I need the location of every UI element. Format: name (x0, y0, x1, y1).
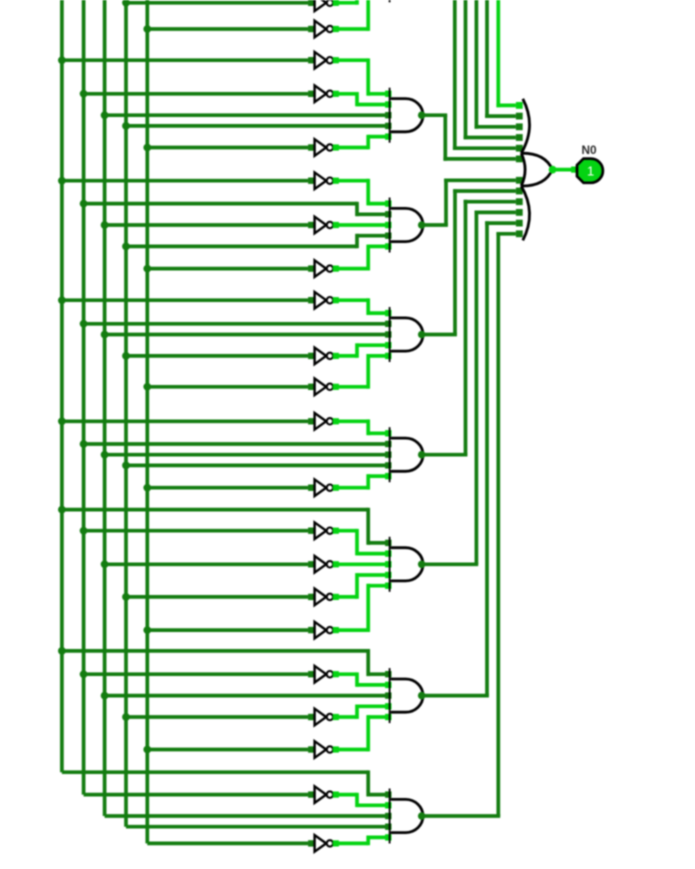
inverter G0d (308, 0, 339, 11)
bus A junction dots (58, 56, 66, 655)
node G6 in5 stub (385, 714, 391, 720)
wire (126, 595, 308, 599)
node G2 in2 stub (385, 211, 391, 217)
wire (84, 92, 309, 96)
inverter G4 in5 NOT (308, 479, 339, 496)
node G2 in1 stub (385, 200, 391, 206)
wire (336, 92, 386, 106)
node G2 in5 stub (385, 243, 391, 249)
wire (62, 649, 386, 676)
wire (105, 562, 309, 566)
inverter G6 in4 NOT (308, 709, 339, 726)
wire (105, 333, 386, 337)
node U1 out (418, 111, 426, 119)
wire (336, 705, 386, 719)
node G3 in2 stub (385, 321, 391, 327)
inverter G2 in3 NOT (308, 217, 339, 234)
wire (126, 715, 308, 719)
node G6 in3 stub (385, 692, 391, 698)
bus B vertical (82, 0, 86, 795)
wire (147, 842, 308, 846)
node G3 in5 stub (385, 353, 391, 359)
node G4 in3 stub (385, 452, 391, 458)
node G3 in4 stub (385, 342, 391, 348)
node G3 in1 stub (385, 310, 391, 316)
and-gate U1 (390, 88, 423, 143)
node G7 in5 stub (385, 834, 391, 840)
inverter G6 in2 NOT (308, 666, 339, 683)
node G4 in2 stub (385, 441, 391, 447)
inverter G7 in2 NOT (308, 786, 339, 803)
node G5 in5 stub (385, 583, 391, 589)
inverter G2 in5 NOT (308, 260, 339, 277)
and-gate U5 (390, 537, 423, 592)
bus C junction dots (101, 111, 109, 699)
node G5 in4 stub (385, 572, 391, 578)
node U5 out (418, 561, 426, 569)
wire (62, 58, 308, 62)
and-gate U4 (390, 427, 423, 482)
wire (126, 1, 308, 5)
wire (336, 135, 386, 150)
wire (84, 793, 309, 797)
bus D junction dots (122, 0, 130, 721)
node G6 in4 stub (385, 703, 391, 709)
node G7 in4 stub (385, 824, 391, 830)
node U8 out (549, 166, 557, 174)
inverter G7 in5 NOT (308, 835, 339, 852)
wire (126, 234, 386, 248)
wire (336, 223, 386, 227)
node G5 in3 stub (385, 561, 391, 567)
wire (84, 322, 386, 326)
wire (84, 442, 386, 446)
wire (336, 58, 386, 95)
wire (336, 0, 357, 5)
wire (336, 672, 386, 686)
inverter G1 in5 NOT (308, 139, 339, 156)
node G5 in2 stub (385, 550, 391, 556)
wire (147, 267, 308, 271)
or-gate U8 input stubs (516, 102, 523, 237)
node U4 out (418, 451, 426, 459)
node G6 in1 stub (385, 671, 391, 677)
bus D vertical (124, 0, 128, 827)
svg-text:1: 1 (587, 163, 594, 178)
and-gate U6 (390, 668, 423, 723)
bus B junction dots (80, 90, 88, 678)
inverter G1 in1 NOT (308, 52, 339, 69)
node G7 in3 stub (385, 813, 391, 819)
node U2 out (418, 221, 426, 229)
wire (126, 464, 386, 468)
and-gate G0 input line tip (389, 0, 391, 2)
node G1 in2 stub (385, 101, 391, 107)
wire (126, 354, 308, 358)
wire (147, 486, 308, 490)
wire (336, 562, 386, 566)
inverter G5 in5 NOT (308, 622, 339, 639)
wire (336, 179, 386, 206)
wire (105, 223, 309, 227)
wire (62, 179, 308, 183)
bus A vertical (60, 0, 64, 772)
wire (147, 385, 308, 389)
inverter G6 in5 NOT (308, 741, 339, 758)
node G7 in1 stub (385, 791, 391, 797)
wire from hidden gate 3 to OR (464, 0, 516, 139)
wire (336, 715, 386, 751)
and-gate U7 (390, 789, 423, 844)
node G1 in3 stub (385, 112, 391, 118)
wire U1 output to OR (423, 115, 516, 161)
wire (336, 343, 386, 358)
node G2 in4 stub (385, 233, 391, 239)
svg-text:N0: N0 (581, 143, 597, 157)
node U3 out (418, 331, 426, 339)
wire (62, 508, 386, 545)
wire (336, 573, 386, 599)
wire (336, 836, 386, 846)
wire U8 out to pin N0 (554, 168, 578, 172)
wire (126, 825, 386, 829)
wire from hidden gate 1 to OR (485, 0, 516, 118)
inverter G1 in2 NOT (308, 86, 339, 103)
wire (126, 124, 386, 128)
node G1 in4 stub (385, 123, 391, 129)
wire from hidden gate 4 to OR (453, 0, 516, 150)
wire (84, 529, 309, 533)
inverter G3 in5 NOT (308, 379, 339, 396)
wire from hidden gate 0 to OR (496, 0, 516, 107)
and-gate U2 (390, 198, 423, 253)
wire (105, 113, 386, 117)
bus C vertical (103, 0, 107, 816)
wire (336, 354, 386, 389)
wire (336, 474, 386, 489)
inverter G3 in1 NOT (308, 292, 339, 309)
wire (147, 748, 308, 752)
node G1 in5 stub (385, 133, 391, 139)
wire U3 output to OR (423, 189, 516, 334)
wire (336, 0, 368, 31)
bus E vertical (145, 0, 149, 843)
wire (147, 146, 308, 150)
wire (336, 793, 386, 807)
wire (105, 453, 386, 457)
wire (336, 419, 386, 435)
wire (84, 672, 309, 676)
node G7 in2 stub (385, 802, 391, 808)
node G4 in1 stub (385, 430, 391, 436)
node G4 in5 stub (385, 473, 391, 479)
inverter G5 in3 NOT (308, 556, 339, 573)
node G2 in3 stub (385, 222, 391, 228)
inverter G2 in1 NOT (308, 172, 339, 189)
wire (147, 27, 308, 31)
wire (62, 770, 386, 796)
wire U6 output to OR (423, 221, 516, 695)
wire (336, 529, 386, 556)
wire (62, 419, 308, 423)
node G1 in1 stub (385, 91, 391, 97)
inverter G5 in2 NOT (308, 522, 339, 539)
wire U4 output to OR (423, 200, 516, 455)
node pin port (571, 167, 577, 173)
inverter G0e (308, 21, 339, 38)
node G4 in4 stub (385, 462, 391, 468)
inverter G5 in4 NOT (308, 589, 339, 606)
bus E junction dots (143, 25, 151, 753)
wire (105, 694, 386, 698)
and-gate U3 (390, 307, 423, 362)
wire from hidden gate 2 to OR (475, 0, 516, 129)
node G6 in2 stub (385, 682, 391, 688)
wire U5 output to OR (423, 211, 516, 565)
wire (147, 628, 308, 632)
node U7 out (418, 812, 426, 820)
wire (105, 814, 386, 818)
wire U2 output to OR (423, 179, 516, 226)
node U6 out (418, 692, 426, 700)
output pin N0 (577, 159, 603, 183)
node G3 in3 stub (385, 331, 391, 337)
wire (336, 245, 386, 271)
label N0 (581, 143, 597, 157)
node G5 in1 stub (385, 540, 391, 546)
inverter G4 in1 NOT (308, 413, 339, 430)
wire U7 output to OR (423, 232, 516, 816)
wire (336, 298, 386, 315)
wire (336, 584, 386, 632)
wire (84, 202, 386, 216)
inverter G3 in4 NOT (308, 348, 339, 365)
or-gate U8 body (521, 99, 552, 241)
wire (62, 298, 308, 302)
